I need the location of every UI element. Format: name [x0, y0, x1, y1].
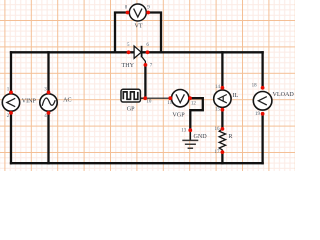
node pin16: [221, 127, 225, 131]
node pin7: [144, 63, 148, 67]
node pin2: [9, 111, 13, 115]
wire: VT bypass left: [115, 13, 128, 53]
svg-text:IL: IL: [233, 93, 239, 99]
node pin9: [146, 11, 150, 15]
wire: AC branch upper: [47, 52, 49, 92]
node pin13: [188, 128, 192, 132]
node pin11: [168, 96, 172, 100]
svg-text:GND: GND: [194, 134, 208, 140]
node pin18: [261, 86, 265, 90]
svg-text:15: 15: [215, 108, 221, 113]
ground: [182, 130, 207, 148]
voltmeter VGP: [172, 90, 189, 119]
svg-text:GP: GP: [127, 106, 135, 112]
svg-text:17: 17: [215, 150, 221, 155]
svg-text:10: 10: [146, 100, 152, 105]
svg-text:12: 12: [191, 102, 197, 107]
ammeter IL: [214, 90, 239, 107]
svg-text:11: 11: [167, 101, 172, 106]
node pin5: [127, 50, 131, 54]
resistor R: [219, 129, 233, 152]
svg-text:16: 16: [215, 127, 221, 132]
wire: top rail right segment: [142, 51, 263, 53]
svg-text:19: 19: [255, 112, 261, 117]
svg-text:18: 18: [252, 84, 258, 89]
pin dots: [9, 11, 264, 154]
node pin4: [47, 111, 51, 115]
svg-text:THY: THY: [122, 63, 135, 69]
wire: THY gate vertical: [144, 65, 146, 98]
svg-text:VGP: VGP: [172, 112, 185, 118]
node pin3: [47, 91, 51, 95]
node pin8: [126, 11, 130, 15]
voltmeter VLOAD: [253, 92, 294, 111]
node pin19: [261, 112, 265, 116]
wire: IL branch top: [221, 52, 223, 88]
voltmeter VT: [129, 4, 146, 29]
wire: VGP pin12 to GND jog: [190, 98, 203, 130]
node pin6: [146, 50, 150, 54]
wire: resistor to bottom rail: [221, 152, 223, 163]
wire: bottom rail: [11, 162, 263, 164]
svg-text:13: 13: [181, 129, 187, 134]
node pin10: [143, 96, 147, 100]
thyristor THY: [122, 46, 146, 69]
svg-text:14: 14: [215, 85, 221, 90]
wire: VLOAD branch top: [261, 52, 263, 88]
svg-text:AC: AC: [63, 98, 71, 104]
svg-text:VT: VT: [134, 23, 142, 29]
wire: AC branch lower: [47, 113, 49, 163]
wire: top rail left segment: [11, 51, 134, 53]
node pin1: [9, 91, 13, 95]
node pin17: [221, 150, 225, 154]
source VINP: [2, 94, 36, 111]
node pin15: [221, 108, 225, 112]
wire: IL to resistor: [221, 110, 223, 129]
wire: VT bypass right: [148, 13, 161, 53]
wire: left branch lower (VINP bottom): [10, 113, 12, 163]
pulse generator GP: [121, 89, 145, 112]
svg-text:VLOAD: VLOAD: [273, 92, 295, 98]
node pin14: [221, 86, 225, 90]
svg-text:VINP: VINP: [22, 98, 37, 104]
wire: GP output to VGP: [145, 97, 170, 99]
source AC: [40, 94, 72, 111]
wire: VLOAD to bottom rail: [261, 114, 263, 163]
wire: left branch upper (VINP top): [10, 52, 12, 92]
node pin12: [188, 96, 192, 100]
grid background: [0, 0, 295, 171]
